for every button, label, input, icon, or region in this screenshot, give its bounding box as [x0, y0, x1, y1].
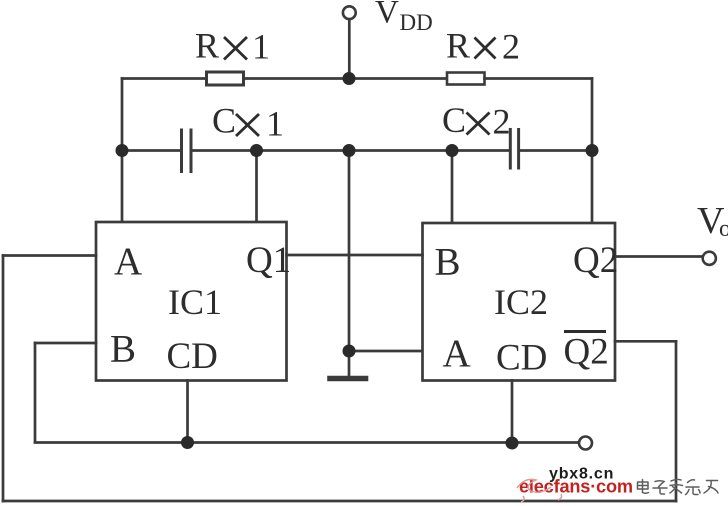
label IC2 pin A: [443, 332, 471, 375]
junction ground node: [343, 345, 356, 358]
wire top row middle segment: [244, 77, 448, 80]
wire far-left vertical: [2, 256, 5, 502]
wire IC2 CD stem: [511, 381, 514, 444]
label R×2: [446, 26, 520, 67]
label IC2 pin Q2bar: [564, 332, 609, 373]
junction cap row x=349: [343, 144, 356, 157]
wire left vertical x=122: [121, 79, 124, 223]
label IC2 pin CD: [496, 338, 547, 379]
watermark chinese 电子发烧友: [638, 479, 719, 494]
label IC1 pin A: [114, 240, 142, 283]
svg-text:IC2: IC2: [494, 282, 548, 322]
svg-text:A: A: [114, 240, 142, 283]
label R×1: [195, 26, 270, 67]
wire capacitor row segment 1: [122, 149, 180, 152]
label IC1 pin Q1: [246, 240, 291, 281]
IC1 box: [96, 222, 287, 381]
label VDD: [375, 0, 433, 35]
wire top row left segment: [122, 77, 206, 80]
wire IC1 CD stem: [186, 381, 189, 443]
wire to IC2 pin A: [349, 350, 423, 353]
terminal Vo open circle: [703, 252, 716, 265]
svg-text:R: R: [446, 26, 470, 66]
junction cap row x=592: [586, 144, 599, 157]
watermark elecfans.com: [519, 477, 633, 497]
svg-text:B: B: [110, 328, 136, 371]
label C×1: [212, 101, 284, 144]
svg-text:IC1: IC1: [168, 282, 222, 322]
junction cap row x=452: [446, 144, 459, 157]
wire vertical x=256.5 into IC1: [255, 151, 258, 223]
wire capacitor row segment 3: [520, 149, 592, 152]
wire Q1 to IC2 B: [287, 254, 423, 257]
label Vo: [697, 200, 728, 242]
resistor R×2: [447, 73, 485, 85]
wire right vertical x=592: [591, 79, 594, 224]
wire Q2bar output horizontal: [615, 340, 676, 343]
svg-text:Q2: Q2: [564, 332, 609, 373]
junction VDD top row: [343, 72, 356, 85]
watermark red swirl: [517, 479, 562, 502]
svg-text:1: 1: [252, 27, 270, 67]
ground: [330, 376, 366, 382]
svg-text:1: 1: [266, 104, 284, 144]
label IC2: [494, 282, 548, 322]
label IC1: [168, 282, 222, 322]
wire bottom feedback row: [3, 500, 676, 503]
junction cap row x=122: [116, 144, 129, 157]
wire capacitor row segment 2: [193, 149, 510, 152]
wire CD row: [35, 441, 579, 444]
junction cap row x=256.5: [250, 144, 263, 157]
terminal VDD open circle: [343, 6, 356, 19]
svg-text:CD: CD: [496, 338, 547, 379]
label IC1 pin CD: [167, 336, 218, 377]
svg-text:DD: DD: [400, 10, 433, 35]
svg-text:2: 2: [493, 102, 511, 142]
capacitor C×2: [510, 130, 518, 169]
wire from IC1 pin B horizontal: [35, 342, 96, 345]
svg-text:C: C: [442, 100, 466, 140]
wire into IC1 pin A: [3, 254, 96, 257]
wire Q2bar output vertical x=676: [675, 341, 678, 501]
capacitor C×1: [182, 130, 192, 172]
svg-text:R: R: [195, 26, 219, 66]
svg-text:2: 2: [502, 27, 520, 67]
resistor R×1: [207, 72, 244, 85]
svg-text:CD: CD: [167, 336, 218, 377]
junction CD row x=512: [506, 437, 519, 450]
wire pin B vertical x=35: [34, 343, 37, 442]
svg-text:B: B: [435, 241, 461, 284]
wire Q2 to Vo: [615, 255, 702, 258]
wire VDD stem: [348, 20, 351, 79]
svg-text:A: A: [443, 332, 471, 375]
svg-text:o: o: [719, 216, 728, 242]
label IC1 pin B: [110, 328, 136, 371]
watermark ybx8.cn: [549, 466, 614, 483]
svg-text:Q1: Q1: [246, 240, 291, 281]
wire middle vertical to ground: [348, 151, 351, 376]
IC2 box: [423, 223, 616, 381]
label C×2: [442, 100, 511, 142]
svg-text:V: V: [375, 0, 399, 31]
wire top row right segment: [485, 77, 593, 80]
svg-text:C: C: [212, 101, 236, 141]
label IC2 pin Q2: [573, 240, 618, 281]
terminal CD open circle: [579, 437, 592, 450]
label IC2 pin B: [435, 241, 461, 284]
wire vertical x=452 into IC2: [451, 151, 454, 224]
junction CD row x=187.5: [181, 436, 194, 449]
svg-text:Q2: Q2: [573, 240, 618, 281]
